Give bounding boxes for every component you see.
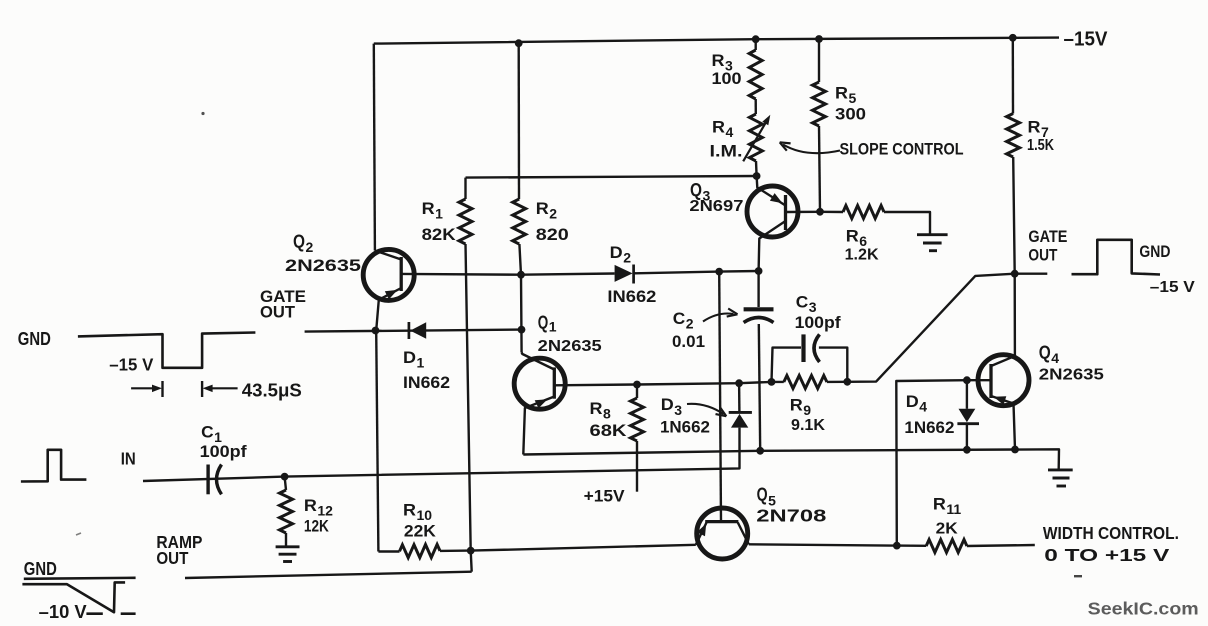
svg-text:12K: 12K — [304, 517, 330, 536]
svg-text:1.5K: 1.5K — [1027, 137, 1054, 154]
svg-text:9: 9 — [803, 402, 811, 418]
svg-text:22K: 22K — [404, 522, 437, 541]
svg-text:C: C — [796, 293, 809, 312]
svg-text:OUT: OUT — [1028, 245, 1057, 264]
svg-text:GND: GND — [1139, 242, 1170, 261]
svg-text:R: R — [835, 84, 848, 103]
svg-text:100pf: 100pf — [200, 442, 247, 461]
svg-text:2N2635: 2N2635 — [1039, 367, 1104, 384]
svg-text:IN662: IN662 — [607, 287, 656, 306]
svg-text:0 TO +15 V: 0 TO +15 V — [1044, 545, 1169, 565]
svg-text:R: R — [790, 396, 803, 415]
svg-text:D: D — [403, 348, 416, 367]
svg-text:1N662: 1N662 — [904, 418, 954, 437]
svg-text:3: 3 — [674, 402, 682, 418]
svg-text:GATE: GATE — [1028, 227, 1067, 246]
svg-text:300: 300 — [835, 105, 866, 124]
svg-text:Q: Q — [538, 313, 549, 333]
svg-text:9.1K: 9.1K — [791, 417, 825, 434]
svg-text:WIDTH CONTROL.: WIDTH CONTROL. — [1043, 523, 1179, 543]
svg-text:GND: GND — [18, 329, 51, 349]
svg-text:2N2635: 2N2635 — [285, 256, 361, 275]
svg-text:–15 V: –15 V — [109, 354, 153, 374]
svg-text:I.M.: I.M. — [710, 142, 743, 161]
svg-text:2: 2 — [306, 239, 314, 255]
svg-text:R: R — [422, 199, 435, 218]
svg-text:IN: IN — [121, 449, 136, 469]
svg-text:C: C — [201, 423, 214, 442]
svg-text:R: R — [536, 199, 549, 218]
svg-text:R: R — [712, 51, 725, 70]
svg-text:R: R — [846, 227, 859, 246]
svg-text:82K: 82K — [422, 225, 457, 244]
svg-text:2K: 2K — [936, 521, 958, 538]
svg-text:GND: GND — [24, 558, 57, 579]
svg-text:+15V: +15V — [584, 487, 626, 506]
svg-text:D: D — [906, 392, 919, 411]
svg-text:2N697: 2N697 — [689, 198, 743, 215]
svg-text:Q: Q — [1039, 343, 1051, 363]
svg-text:SLOPE CONTROL: SLOPE CONTROL — [840, 140, 964, 159]
svg-text:1.2K: 1.2K — [845, 247, 879, 264]
svg-text:IN662: IN662 — [403, 373, 450, 392]
svg-text:820: 820 — [536, 225, 569, 244]
svg-text:43.5μS: 43.5μS — [242, 380, 302, 400]
svg-text:100: 100 — [712, 69, 742, 88]
svg-text:D: D — [661, 395, 674, 414]
svg-text:Q: Q — [757, 484, 768, 504]
svg-text:SeekIC.com: SeekIC.com — [1088, 599, 1199, 619]
svg-text:68K: 68K — [590, 421, 628, 440]
svg-text:–15V: –15V — [1064, 29, 1109, 51]
svg-text:8: 8 — [603, 406, 611, 422]
svg-text:OUT: OUT — [260, 302, 296, 321]
svg-text:2: 2 — [623, 250, 631, 266]
svg-text:100pf: 100pf — [795, 313, 841, 332]
svg-text:C: C — [673, 309, 686, 328]
svg-text:OUT: OUT — [156, 548, 188, 568]
svg-text:1: 1 — [435, 206, 443, 222]
svg-text:R: R — [712, 118, 725, 137]
svg-text:2: 2 — [549, 206, 557, 222]
svg-text:R: R — [403, 501, 416, 520]
svg-text:–15 V: –15 V — [1150, 279, 1195, 296]
svg-text:2: 2 — [686, 316, 694, 332]
svg-text:2N708: 2N708 — [756, 506, 826, 526]
svg-text:4: 4 — [1051, 350, 1059, 366]
svg-text:Q: Q — [293, 231, 305, 251]
svg-text:R: R — [933, 495, 946, 514]
svg-text:4: 4 — [919, 399, 927, 415]
svg-text:2N2635: 2N2635 — [538, 338, 602, 355]
svg-text:0.01: 0.01 — [672, 332, 705, 351]
svg-text:–10 V: –10 V — [39, 602, 87, 622]
svg-text:R: R — [590, 399, 603, 418]
svg-text:4: 4 — [726, 124, 734, 140]
svg-text:R: R — [304, 496, 317, 515]
svg-text:1N662: 1N662 — [660, 418, 710, 437]
svg-text:1: 1 — [417, 355, 425, 371]
svg-text:D: D — [610, 243, 623, 262]
svg-text:11: 11 — [946, 501, 961, 517]
svg-text:1: 1 — [549, 319, 557, 335]
svg-text:R: R — [1028, 118, 1041, 137]
